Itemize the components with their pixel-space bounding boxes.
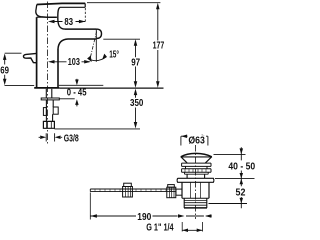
svg-text:Ø63: Ø63 (188, 136, 205, 147)
svg-text:15°: 15° (109, 50, 119, 61)
svg-text:177: 177 (153, 41, 165, 52)
svg-text:190: 190 (137, 212, 151, 223)
svg-text:83: 83 (64, 17, 73, 28)
svg-text:G3/8: G3/8 (64, 134, 79, 145)
svg-text:69: 69 (0, 65, 9, 76)
svg-text:103: 103 (68, 57, 81, 68)
svg-text:G 1" 1/4: G 1" 1/4 (146, 223, 174, 234)
svg-text:40 - 50: 40 - 50 (228, 161, 255, 172)
svg-text:97: 97 (131, 57, 140, 68)
svg-text:350: 350 (130, 98, 144, 109)
svg-text:0 - 45: 0 - 45 (67, 87, 87, 98)
svg-text:52: 52 (236, 188, 246, 199)
